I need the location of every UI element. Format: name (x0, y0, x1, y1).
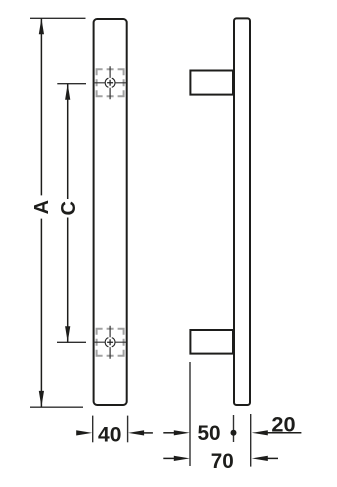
svg-text:40: 40 (98, 423, 121, 447)
svg-text:C: C (58, 201, 80, 215)
svg-text:70: 70 (211, 449, 234, 473)
svg-text:20: 20 (271, 413, 295, 436)
svg-text:A: A (31, 200, 53, 214)
svg-text:50: 50 (197, 421, 220, 445)
